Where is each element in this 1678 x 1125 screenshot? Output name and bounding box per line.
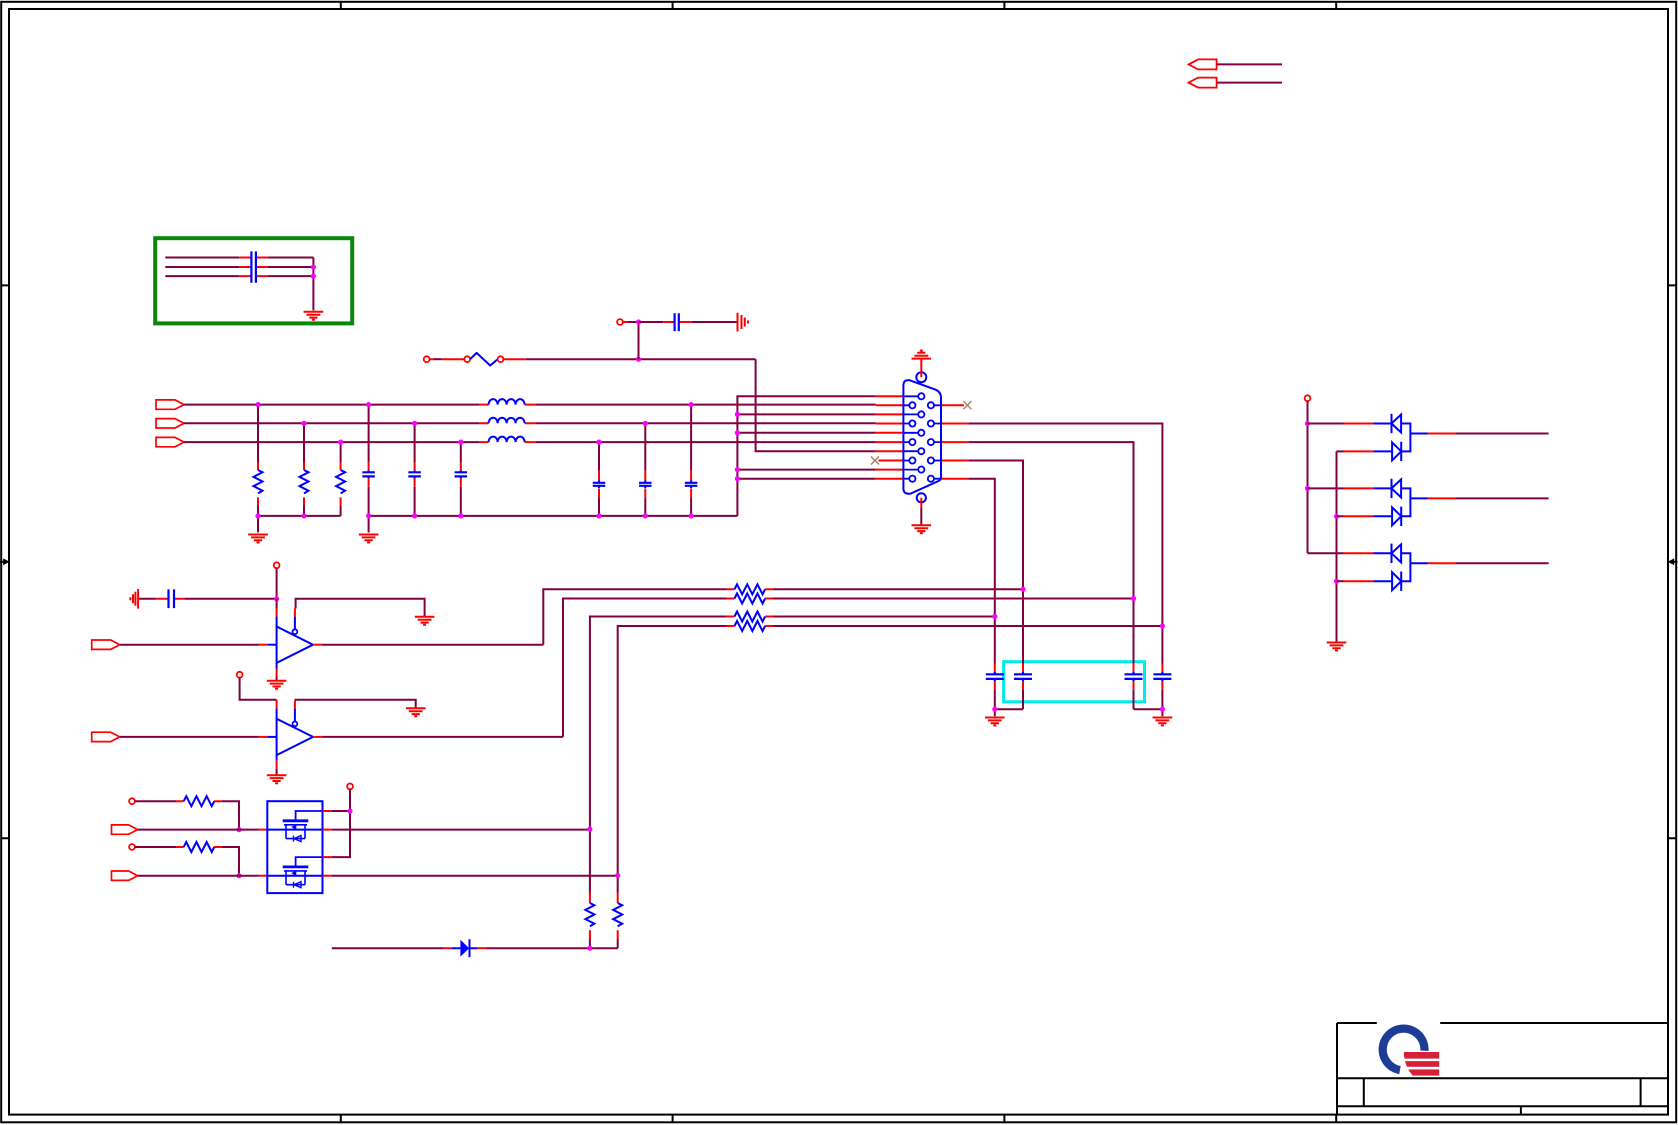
node gnd rail pair2 xyxy=(1334,514,1339,519)
transistor Q1 xyxy=(296,811,323,819)
wire G row xyxy=(184,422,876,424)
op-amp U2 xyxy=(277,719,313,755)
wire port1 to Q1 xyxy=(138,829,259,831)
node bus C3 xyxy=(458,513,463,518)
node bus C5 xyxy=(643,513,648,518)
wire row C xyxy=(737,413,875,415)
node bus C6 xyxy=(689,513,694,518)
node bus right pair xyxy=(1160,707,1165,712)
wire resistor ground bus xyxy=(258,516,341,533)
wire w1 opamp1 out to pin13 net xyxy=(543,589,1023,644)
port IN blue xyxy=(156,437,184,446)
wire gate rail xyxy=(332,789,350,857)
connector J1 left pin stubs xyxy=(876,396,904,478)
node opamp1 top junction xyxy=(274,596,279,601)
title block row3 divider xyxy=(1520,1106,1522,1115)
node C5 top xyxy=(643,421,648,426)
ground inverted top of J1 xyxy=(912,351,932,359)
capacitor C2 vertical xyxy=(414,423,416,462)
off-page flag 2 top right xyxy=(1189,78,1217,88)
resistor R1 vertical xyxy=(257,405,259,462)
node v2 row I xyxy=(735,467,740,472)
wire Q1 drain out xyxy=(323,829,332,831)
wire Q2 gate stub xyxy=(323,856,332,858)
node R1 top xyxy=(255,402,260,407)
node C1 top xyxy=(366,402,371,407)
wire pin to fuse xyxy=(434,358,442,360)
ground cap bus xyxy=(359,535,379,543)
wire opamp1 top pin xyxy=(276,609,278,617)
node C3 top xyxy=(458,440,463,445)
resistor R11 vertical xyxy=(617,893,619,940)
wire U2 bubble to ground xyxy=(294,701,296,709)
node v2 row J xyxy=(735,476,740,481)
inductor L3 xyxy=(479,441,535,443)
resistor R6 series xyxy=(726,616,773,618)
node Q1 out junction xyxy=(587,827,592,832)
company logo background xyxy=(1377,1022,1440,1077)
pin circle bypass cap xyxy=(617,319,623,325)
wire flag 2 xyxy=(1217,82,1282,84)
node gnd rail pair3 xyxy=(1334,579,1339,584)
wire green box row3 xyxy=(165,275,313,277)
fuse F1 xyxy=(464,356,470,362)
ground U2 bubble xyxy=(406,708,426,716)
ground bottom of J1 xyxy=(912,525,932,533)
resistor R7 series xyxy=(726,625,773,627)
ground green box xyxy=(304,312,324,320)
frame zone ticks right xyxy=(1668,285,1676,838)
connector J1 pin leads left column xyxy=(903,405,909,478)
wire B row xyxy=(184,441,876,443)
wire green box row2 xyxy=(165,266,313,268)
pin circle opamp2 enable xyxy=(237,672,243,678)
diode pair D2 upper xyxy=(1308,423,1344,425)
pin circle pullup R9 xyxy=(129,844,135,850)
frame zone ticks top xyxy=(341,2,1336,9)
wire cap pair bus right xyxy=(1134,709,1163,716)
node gate rail Q1 xyxy=(347,808,352,813)
ground U1 bubble xyxy=(415,617,435,625)
wire opamp2 top pin xyxy=(240,678,277,700)
resistor R5 series xyxy=(726,598,773,600)
wire J1 pin14 to v 995 xyxy=(968,479,995,617)
diode D1 xyxy=(443,947,452,949)
wire cap pair bus left xyxy=(995,709,1023,716)
wire J1 pin12 to v 1133 xyxy=(968,442,1133,598)
ground TVS rail xyxy=(1327,643,1347,651)
node bus R1 xyxy=(255,513,260,518)
wire TVS vcc rail xyxy=(1307,401,1309,553)
capacitor C7 opamp1 xyxy=(139,598,156,600)
capacitor C_top xyxy=(639,321,738,323)
wire shield top stem xyxy=(920,359,922,377)
node C2 top xyxy=(412,421,417,426)
resistor R9 xyxy=(135,846,176,848)
wire row J xyxy=(737,478,875,480)
resistor R10 vertical xyxy=(589,893,591,940)
capacitor C_gb leads xyxy=(239,258,267,277)
wire U1 bubble to ground xyxy=(294,609,296,617)
node bus R2 xyxy=(301,513,306,518)
connector J1 pins right column xyxy=(928,402,934,482)
wire J1 pin11 to v 1162 xyxy=(968,424,1162,627)
wire green box vertical xyxy=(312,258,314,311)
wire riser to DB15 row G xyxy=(756,359,876,451)
capacitor C_gb plates xyxy=(251,251,256,282)
wire U1 output xyxy=(313,644,322,646)
inductor L1 xyxy=(479,404,535,406)
connector J1 mounting hole top xyxy=(916,372,926,382)
capacitor C1 vertical xyxy=(368,405,370,463)
capacitor C6 after L xyxy=(690,405,692,471)
node bus C2 xyxy=(412,513,417,518)
wire ground riser v2 xyxy=(737,396,875,516)
frame zone ticks bottom xyxy=(341,1115,1336,1123)
capacitor C11 xyxy=(1022,589,1024,664)
frame zone ticks left xyxy=(1,285,9,838)
node green box junction 2 xyxy=(311,274,316,279)
node green box junction 1 xyxy=(311,264,316,269)
node C6 top xyxy=(689,402,694,407)
inductor L2 xyxy=(479,422,535,424)
wire D3 common xyxy=(1401,488,1428,516)
port IN red xyxy=(156,400,184,409)
wire row E xyxy=(737,432,875,434)
resistor R4 series xyxy=(726,588,773,590)
wire J1 pin13 to v 1023 xyxy=(968,461,1023,590)
wire opamp1 vcc xyxy=(276,568,278,599)
pin circle fuse left xyxy=(424,356,430,362)
transistor pack U3 box xyxy=(267,801,322,893)
wire fuse to node xyxy=(503,358,525,360)
wire R row xyxy=(184,404,876,406)
port mosfet channel 1 xyxy=(112,825,138,834)
connector J1 DB15 body xyxy=(903,380,941,494)
wire U2 output xyxy=(313,736,322,738)
wire pin to cap node xyxy=(623,321,628,323)
node cap branch junction xyxy=(636,319,641,324)
ground U2 bottom xyxy=(267,775,287,783)
capacitor C3 vertical xyxy=(460,442,462,462)
wire Q2 drain out xyxy=(323,875,332,877)
capacitor C4 after L xyxy=(598,442,600,470)
node R8 to port1 wire xyxy=(236,827,241,832)
diode pair D2 lower xyxy=(1337,450,1344,452)
op-amp U1 bubble xyxy=(294,617,296,630)
no-connect X left xyxy=(871,457,879,465)
port opamp1 input xyxy=(92,640,120,649)
node w4 junction xyxy=(1160,623,1165,628)
wire Q1 gate stub xyxy=(323,810,332,812)
node v2 row E xyxy=(735,430,740,435)
pin circle opamp1 vcc xyxy=(274,562,280,568)
resistor R2 vertical xyxy=(303,423,305,462)
ground left cap pair xyxy=(985,718,1005,726)
ground right cap pair xyxy=(1153,718,1173,726)
node bus C1 xyxy=(366,513,371,518)
connector J1 pin leads right column xyxy=(934,405,941,478)
node R9 to port2 wire xyxy=(236,873,241,878)
port mosfet channel 2 xyxy=(112,871,138,880)
wire w3 mosfet1 out to pin14 net xyxy=(590,617,995,893)
node rail pair2 xyxy=(1305,486,1310,491)
node bus left pair xyxy=(992,707,997,712)
off-page flag 1 top right xyxy=(1189,59,1217,69)
wire TVS gnd rail xyxy=(1336,451,1338,642)
diode pair D3 lower xyxy=(1337,515,1344,517)
earth rotated left opamp1 xyxy=(130,589,138,609)
port IN green xyxy=(156,419,184,428)
pin circle pullup R8 xyxy=(129,798,135,804)
diode pair D4 lower xyxy=(1337,580,1344,582)
capacitor C13 xyxy=(1161,626,1163,664)
pin circle gate pullup xyxy=(347,784,353,790)
frame centre arrow right xyxy=(1673,561,1678,563)
diode pair D3 upper xyxy=(1308,487,1344,489)
connector J1 mounting hole bottom xyxy=(917,493,926,502)
wire shield bottom stem xyxy=(920,498,922,508)
node bottom rail R10 xyxy=(587,946,592,951)
node v2 row C xyxy=(735,412,740,417)
capacitor C5 after L xyxy=(644,423,646,470)
node rail pair1 xyxy=(1305,421,1310,426)
capacitor C12 xyxy=(1133,599,1135,664)
company logo blue ring xyxy=(1379,1025,1429,1075)
wire U2 bottom xyxy=(276,755,278,761)
wire opamp1 input xyxy=(120,644,259,646)
diode pair D4 upper xyxy=(1308,552,1344,554)
ground resistor bus xyxy=(248,535,268,543)
op-amp U2 bubble xyxy=(294,709,296,722)
cyan highlight box xyxy=(1004,662,1145,702)
green highlight box xyxy=(155,238,352,323)
node Q2 out junction xyxy=(615,873,620,878)
wire w4 mosfet2 out to pin11 net xyxy=(618,626,1163,893)
node bus C4 xyxy=(596,513,601,518)
node C4 top xyxy=(596,440,601,445)
wire green box row1 xyxy=(165,257,313,259)
node R2 top xyxy=(301,421,306,426)
wire cap ground bus xyxy=(369,516,738,533)
title block outline xyxy=(1337,1023,1668,1115)
resistor R3 vertical xyxy=(340,442,342,462)
op-amp U1 xyxy=(277,627,313,663)
title block row2 dividers xyxy=(1364,1078,1641,1106)
pin circle TVS vcc xyxy=(1305,395,1311,401)
connector J1 right pin stubs xyxy=(941,405,968,478)
connector J1 pins left column xyxy=(909,402,915,482)
node w1 junction xyxy=(1020,587,1025,592)
no-connect X right xyxy=(963,401,971,409)
node w3 junction xyxy=(992,614,997,619)
chassis earth right-facing xyxy=(738,313,749,332)
frame centre arrow left xyxy=(0,561,5,563)
connector J1 pins middle column xyxy=(918,393,924,473)
transistor Q2 xyxy=(296,857,323,865)
node fuse wire junction xyxy=(636,357,641,362)
wire w2 opamp2 out to pin12 net xyxy=(563,599,1134,737)
node w2 junction xyxy=(1131,596,1136,601)
wire D4 common xyxy=(1401,553,1428,581)
resistor R8 xyxy=(135,800,176,802)
port opamp2 input xyxy=(92,732,120,741)
wire U1 bottom xyxy=(276,663,278,669)
wire opamp2 input xyxy=(120,736,259,738)
wire bottom rail xyxy=(332,947,443,949)
wire row I xyxy=(737,469,875,471)
connector J1 pin leads middle column xyxy=(903,396,918,469)
wire D2 common xyxy=(1401,424,1428,452)
wire port2 to Q2 xyxy=(138,875,259,877)
ground U1 bottom xyxy=(267,681,287,689)
wire flag 1 xyxy=(1217,63,1282,65)
node R3 top xyxy=(338,440,343,445)
capacitor C10 xyxy=(994,617,996,664)
